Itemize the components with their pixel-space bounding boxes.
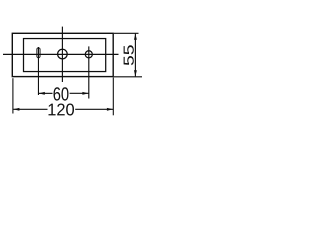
dimension arrow 120 left — [13, 108, 19, 111]
horizontal centerline — [3, 53, 119, 55]
extension line 120 left — [12, 78, 14, 113]
mounting hole (right small circle) — [85, 51, 92, 58]
dimension arrow 120 right — [107, 108, 113, 111]
dimension line 60, right segment — [70, 92, 89, 94]
dimension text 120 — [48, 104, 73, 116]
outer rectangle (fixture body 120 x 55) — [12, 33, 113, 76]
dimension line 120, right segment — [75, 108, 113, 110]
inner rectangle (opening) — [24, 39, 106, 72]
extension line from slot down to 60-dimension — [37, 47, 39, 95]
dimension line 55 — [134, 34, 136, 77]
dimension arrow 55 top — [134, 34, 137, 40]
dimension line 60, left segment — [39, 92, 53, 94]
extension line 55 top — [114, 32, 139, 34]
extension line 120 right — [112, 78, 114, 116]
dimension line 120, left segment — [13, 108, 47, 110]
dimension arrow 60 left — [39, 92, 45, 95]
dimension arrow 60 right — [82, 92, 88, 95]
extension line 55 bottom — [114, 76, 142, 78]
vertical centerline — [61, 27, 63, 82]
extension line through right hole down to 60-dimension — [88, 46, 90, 98]
mounting slot (left obround) — [37, 48, 40, 58]
dimension text 60 — [53, 87, 68, 100]
dimension text 55 (rotated) — [124, 45, 134, 65]
center hole circle — [58, 49, 68, 59]
dimension arrow 55 bottom — [134, 70, 137, 76]
